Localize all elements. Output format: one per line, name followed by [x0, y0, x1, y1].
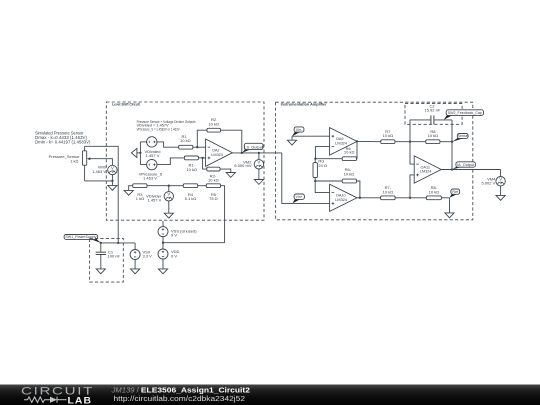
wire pot top to supply rail [85, 145, 119, 147]
junction sense node [451, 141, 453, 143]
junction OA11 + node [409, 197, 411, 199]
junction RG bottom [314, 180, 316, 182]
wire OA9 output to R7 [357, 140, 381, 142]
junction R1/feedback [196, 146, 198, 148]
voltmeter VM2 6.000 mV [258, 153, 260, 160]
svg-text:V: V [167, 192, 170, 197]
wire pot bottom to ground node [85, 180, 113, 182]
flag SW2_Feedback_Cap [444, 114, 453, 119]
resistor R2 10 kOhm [207, 128, 221, 132]
resistor R5 75 Ohm [206, 184, 220, 188]
resistor R1- 10 kOhm [184, 156, 198, 160]
svg-text:Sense: Sense [458, 134, 468, 138]
svg-text:1.457 V: 1.457 V [148, 198, 162, 203]
svg-text:SW2_Feedback_Cap: SW2_Feedback_Cap [448, 111, 482, 115]
wire node to R6 [315, 158, 342, 160]
svg-text:Ref: Ref [452, 190, 459, 194]
wire R7- to R8- [395, 197, 426, 199]
op-amp OA9 LM324 [330, 128, 357, 156]
svg-text:1 kΩ: 1 kΩ [136, 196, 144, 201]
wire feedback node up to C2 [410, 120, 431, 142]
svg-text:9 V: 9 V [171, 253, 177, 258]
ground [254, 180, 263, 185]
svg-text:http://circuitlab.com/c2dbka23: http://circuitlab.com/c2dbka2342j52 [114, 394, 246, 403]
svg-text:V: V [258, 160, 261, 165]
svg-text:15.92 nF: 15.92 nF [425, 107, 441, 112]
junction C1 tap [100, 242, 102, 244]
flag Vin+ [293, 198, 301, 203]
junction bus-ground [139, 152, 141, 154]
flag Vin- [292, 131, 301, 136]
svg-text:10 kΩ: 10 kΩ [180, 138, 191, 143]
svg-text:VPressure_S = 1.4583V or 1.463: VPressure_S = 1.4583V or 1.463V [137, 127, 180, 132]
wire R2- to ground [220, 169, 231, 172]
svg-text:10 kΩ: 10 kΩ [383, 189, 394, 194]
wire feedback to R2 [197, 130, 207, 147]
svg-text:10 kΩ: 10 kΩ [208, 121, 219, 126]
flag SW1_PowerSupply [91, 238, 101, 243]
svg-text:1.463 V: 1.463 V [143, 176, 157, 181]
svg-text:1.457 V: 1.457 V [146, 153, 160, 158]
wire R6- to OA10 output [357, 181, 360, 198]
junction VDivider tap [168, 185, 170, 187]
svg-text:LS_Output: LS_Output [244, 144, 264, 149]
wire R2 to output [221, 130, 242, 153]
ground [158, 269, 167, 274]
svg-text:Vin+: Vin+ [296, 195, 303, 199]
wire R1 to OA2 inverting input [193, 146, 206, 148]
junction rail [117, 242, 119, 244]
svg-text:3.3 V: 3.3 V [143, 254, 153, 259]
wire OA11 output to VM4 [441, 169, 500, 171]
wire R8 to sense node [440, 141, 452, 143]
svg-text:LAB: LAB [68, 395, 93, 405]
wire OA11 + input [410, 175, 414, 198]
resistor R7- 10 kOhm [381, 196, 396, 200]
wire ref to ground [449, 198, 451, 213]
op-amp OA11 LM324 [414, 156, 441, 183]
ground [445, 213, 454, 218]
ground (rotated left) [137, 152, 141, 154]
op-amp OA10 LM324 [330, 184, 357, 211]
dashed box Instrumentation Amplifier [276, 102, 473, 220]
junction feedback-output [241, 152, 243, 154]
voltage source VS0 3.3 V [134, 243, 136, 250]
svg-text:10 kΩ: 10 kΩ [186, 167, 197, 172]
wire C2 right down to output [451, 120, 453, 170]
svg-text:LM324: LM324 [211, 153, 223, 157]
svg-text:5.002 V: 5.002 V [482, 181, 496, 186]
ground [164, 213, 173, 218]
ground [496, 195, 505, 200]
resistor R6 10 kOhm [342, 157, 356, 161]
logo resistor-diode symbol [24, 397, 50, 403]
junction VM2 tap [258, 152, 260, 154]
wire R1- to OA2 non-inverting input [198, 157, 205, 159]
junction OA10 output [359, 197, 361, 199]
svg-text:10 kΩ: 10 kΩ [208, 178, 219, 183]
wire VPressure_S to R1- [157, 158, 184, 165]
wire wiper to voltmeter VM0 [90, 159, 113, 166]
resistor R3 1 kOhm [133, 184, 147, 188]
svg-text:V: V [499, 177, 502, 182]
junction feedback node [409, 141, 411, 143]
flag Ref [450, 193, 458, 197]
wire Vin- to OA9 + [292, 135, 330, 137]
svg-text:10 kΩ: 10 kΩ [344, 171, 355, 176]
op-amp OA2 LM324 [206, 139, 233, 166]
svg-text:9 V: 9 V [171, 233, 177, 238]
resistor R8- 10 kOhm [426, 196, 441, 200]
svg-text:IA_Output: IA_Output [457, 163, 475, 167]
ground [291, 136, 293, 140]
dashed box feedback cap [405, 103, 462, 124]
ground [96, 269, 105, 274]
flag IA_Output [452, 166, 462, 169]
svg-text:5.1 kΩ: 5.1 kΩ [185, 196, 197, 201]
wire OA10 - input [315, 181, 329, 193]
svg-text:Dmin - k= 0.44197 (1.4583V): Dmin - k= 0.44197 (1.4583V) [35, 139, 91, 144]
wire R5 down to 9V rail [221, 186, 225, 243]
resistor R2- 10 kOhm [207, 167, 220, 171]
wire OA11 - input [410, 142, 414, 164]
ground [226, 173, 235, 178]
potentiometer Pressure_Sensor 1 kΩ [83, 151, 87, 165]
wire OA10 output to R7- [357, 197, 381, 199]
capacitor C1 100 nF [100, 243, 102, 252]
wire supply rail vertical [117, 146, 119, 243]
voltmeter VM0 1.463 V [108, 165, 117, 174]
resistor R1 10 kOhm [179, 145, 193, 149]
svg-text:LM324: LM324 [335, 198, 347, 202]
svg-text:1 kΩ: 1 kΩ [70, 158, 78, 163]
junction VSS/VDD [162, 242, 164, 244]
wire 3.3V rail [101, 242, 135, 244]
dashed box supply decoupling [90, 238, 124, 282]
svg-text:LM324: LM324 [420, 170, 432, 174]
wire R6 to OA9 output [356, 141, 359, 158]
junction OA2 + node [201, 157, 203, 159]
wire LS output into IA (Vin+ net) [282, 153, 330, 204]
wire source bus [139, 142, 141, 165]
wire OA2 + to R2- [203, 158, 207, 169]
wire OA9 - to R6 [315, 147, 329, 159]
ground (R3 left) [129, 186, 133, 191]
svg-text:10 kΩ: 10 kΩ [383, 133, 394, 138]
flag LS_Output [242, 149, 250, 153]
wire R4 to R5 [198, 185, 207, 187]
svg-text:10 kΩ: 10 kΩ [344, 150, 355, 155]
junction output node [451, 168, 453, 170]
voltmeter VDivider 1.457 V [168, 186, 170, 192]
junction pot/VM0 ground node [111, 180, 113, 182]
flag Sense [452, 137, 464, 141]
voltage source VDD 9 V [162, 243, 164, 249]
svg-text:Instrumentation Amplifier: Instrumentation Amplifier [281, 103, 328, 107]
svg-text:24 Ω: 24 Ω [318, 163, 327, 168]
wire R7 to R8 [395, 141, 426, 143]
resistor R4 5.1 kOhm [183, 184, 197, 188]
wire RG node to R6- [315, 180, 342, 182]
wire junction to divider rail [163, 242, 225, 244]
voltage source VSS (Unused) 9 V [162, 221, 164, 227]
junction OA9 output [356, 140, 358, 142]
junction OA9 inverting node [314, 158, 316, 160]
ground [111, 181, 113, 186]
resistor RG 24 Ohm (vertical) [314, 159, 316, 163]
svg-text:Level Shift Circuit: Level Shift Circuit [112, 103, 140, 107]
resistor R6- 10 kOhm [342, 179, 356, 183]
voltage source VDivided 1.457 V [147, 137, 157, 147]
resistor R8 10 kOhm [426, 140, 440, 144]
svg-text:1.463 V: 1.463 V [92, 169, 106, 174]
resistor R7 10 kOhm [381, 140, 395, 144]
voltmeter VM4 5.002 V [500, 170, 502, 177]
wire OA2 output (LS_Output net) [232, 152, 281, 154]
svg-text:V: V [111, 165, 114, 170]
voltage source VPressure_S 1.463 V [147, 159, 157, 169]
wire VDivided to R1 [157, 142, 179, 147]
ground [131, 269, 140, 274]
wire R8- to ref node [441, 197, 449, 199]
svg-text:10 kΩ: 10 kΩ [429, 189, 440, 194]
dashed box Level Shift Circuit [106, 102, 264, 220]
svg-text:10 kΩ: 10 kΩ [428, 133, 439, 138]
wire R3 to R4 [147, 185, 183, 187]
svg-text:75 Ω: 75 Ω [209, 196, 218, 201]
svg-text:6.000 mV: 6.000 mV [234, 163, 251, 168]
svg-text:100 nF: 100 nF [108, 254, 121, 259]
svg-text:Vin-: Vin- [296, 128, 303, 132]
capacitor C2 15.92 nF [430, 115, 432, 124]
